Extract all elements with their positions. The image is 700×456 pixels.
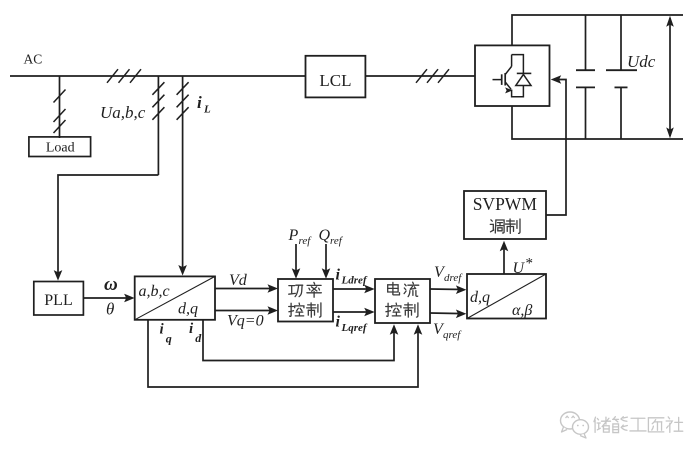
wire iq feedback xyxy=(148,320,422,387)
label gong-lv (power) xyxy=(289,282,322,297)
svg-text:θ: θ xyxy=(106,300,114,319)
svg-text:qref: qref xyxy=(443,329,462,341)
label iLdref xyxy=(336,266,368,286)
wire Vqref to dq-ab xyxy=(430,310,466,319)
label d,q in dq-ab box xyxy=(470,289,490,306)
label Ua,b,c xyxy=(100,103,146,122)
label alpha,beta xyxy=(512,302,532,319)
label kong-zhi (control) current xyxy=(386,303,418,317)
label iLqref xyxy=(336,314,368,334)
wire LCL to converter xyxy=(365,75,475,77)
label Qref xyxy=(319,227,344,247)
wire iLqref to current control xyxy=(333,308,375,317)
wire dq-ab to SVPWM xyxy=(500,241,509,274)
Udc measurement arrow xyxy=(666,16,674,139)
wire SVPWM to converter xyxy=(546,75,566,215)
box LCL xyxy=(306,56,366,98)
svg-text:PLL: PLL xyxy=(44,292,72,309)
label Vq=0 xyxy=(227,312,264,329)
box power control xyxy=(278,279,333,322)
wire id feedback xyxy=(203,320,398,361)
svg-text:i: i xyxy=(197,93,202,112)
svg-text:Q: Q xyxy=(319,227,331,244)
wire Uabc sense drop xyxy=(157,76,159,175)
svg-text:Vq=0: Vq=0 xyxy=(227,312,264,329)
label kong-zhi (control) power xyxy=(289,303,321,317)
wire Qref xyxy=(322,244,331,279)
label Vqref xyxy=(433,321,462,341)
box converter bridge xyxy=(475,45,550,106)
svg-text:Lqref: Lqref xyxy=(341,322,368,334)
wire Pref xyxy=(292,244,301,279)
svg-text:AC: AC xyxy=(24,52,43,67)
3-phase slashes on iL line xyxy=(177,82,189,120)
svg-text:q: q xyxy=(166,331,172,345)
svg-text:L: L xyxy=(203,104,211,116)
wire PLL to abc-dq xyxy=(83,294,134,303)
wire Uabc to PLL xyxy=(54,175,159,281)
svg-text:P: P xyxy=(288,227,299,244)
wire converter top to DC+ xyxy=(512,15,683,45)
wire iL sense drop xyxy=(178,76,187,276)
label a,b,c in abc-dq box xyxy=(139,283,170,300)
node AC label xyxy=(24,52,43,67)
label Udc xyxy=(627,52,656,71)
label Pref xyxy=(288,227,313,247)
box abc to dq transform xyxy=(135,276,215,319)
label U* xyxy=(513,256,534,277)
label omega xyxy=(104,274,118,295)
svg-text:d,q: d,q xyxy=(470,289,490,306)
box Load xyxy=(29,137,91,157)
svg-text:i: i xyxy=(336,314,341,331)
3-phase slashes on load branch xyxy=(54,90,66,134)
svg-text:Udc: Udc xyxy=(627,52,656,71)
svg-text:ref: ref xyxy=(299,235,313,247)
3-phase slashes on Uabc line xyxy=(152,82,164,120)
wire Vdref to dq-ab xyxy=(430,285,466,294)
wire iLdref to current control xyxy=(333,285,375,294)
svg-text:Vd: Vd xyxy=(229,272,248,289)
svg-text:*: * xyxy=(526,256,534,272)
label Vd xyxy=(229,272,248,289)
wire converter bottom to DC- xyxy=(512,106,683,139)
svg-text:i: i xyxy=(336,266,341,283)
capacitor C2 xyxy=(606,15,637,139)
svg-text:α,β: α,β xyxy=(512,302,532,319)
label Vdref xyxy=(434,264,463,284)
wire Vq to power control xyxy=(215,306,278,315)
label dian-liu (current) xyxy=(388,282,419,296)
capacitor C1 xyxy=(576,15,595,139)
svg-text:d,q: d,q xyxy=(178,301,198,318)
label theta xyxy=(106,300,114,319)
svg-text:Ldref: Ldref xyxy=(341,275,368,287)
wire Vd to power control xyxy=(215,284,278,293)
label id xyxy=(189,321,202,345)
svg-text:SVPWM: SVPWM xyxy=(473,194,538,214)
box dq to alpha-beta transform xyxy=(467,274,546,319)
svg-text:LCL: LCL xyxy=(319,71,351,90)
box PLL xyxy=(34,282,84,316)
box current control xyxy=(375,279,430,323)
label tiao-zhi (modulation) xyxy=(490,219,520,233)
wire main AC bus xyxy=(10,75,306,77)
3-phase slashes on AC bus xyxy=(107,69,141,83)
transistor IGBT with diode xyxy=(493,55,532,97)
label iL xyxy=(197,93,211,116)
svg-text:dref: dref xyxy=(444,272,463,284)
svg-text:ref: ref xyxy=(330,235,344,247)
svg-text:a,b,c: a,b,c xyxy=(139,283,170,300)
svg-text:ω: ω xyxy=(104,274,118,295)
box SVPWM modulator xyxy=(464,191,546,239)
label iq xyxy=(160,321,172,345)
watermark text chu-neng-gong-jiang-she xyxy=(594,417,683,433)
svg-text:Ua,b,c: Ua,b,c xyxy=(100,103,146,122)
wire load branch drop xyxy=(59,76,61,138)
3-phase slashes LCL-converter xyxy=(416,69,449,83)
svg-text:Load: Load xyxy=(46,141,75,156)
svg-text:d: d xyxy=(195,331,202,345)
watermark wechat logo xyxy=(561,412,589,438)
label d,q in abc-dq box xyxy=(178,301,198,318)
